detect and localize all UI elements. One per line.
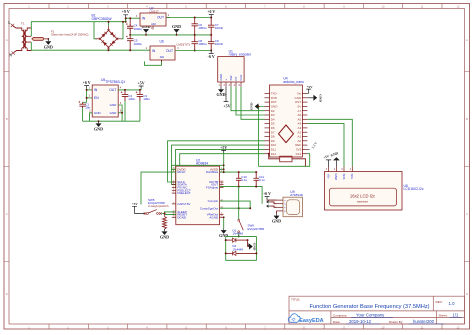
- svg-text:SDA: SDA: [342, 174, 346, 180]
- svg-text:1N4448: 1N4448: [233, 247, 244, 251]
- ground at LCD: [335, 160, 337, 166]
- svg-text:1.0: 1.0: [449, 301, 456, 306]
- svg-text:15: 15: [220, 213, 222, 215]
- wire +6V rail: [166, 17, 211, 19]
- svg-text:D: D: [6, 292, 8, 296]
- LCD module U8: [325, 172, 403, 211]
- ground at U9: [276, 211, 278, 214]
- svg-text:SCL: SCL: [350, 174, 354, 180]
- svg-text:GND: GND: [94, 126, 103, 131]
- svg-text:DGND: DGND: [177, 215, 187, 219]
- svg-text:LCD16X2-I2c: LCD16X2-I2c: [404, 187, 424, 191]
- svg-text:GND: GND: [219, 233, 228, 238]
- wire avdd dvdd top: [172, 165, 224, 169]
- wire SW6 to diode loop: [238, 233, 240, 237]
- svg-text:LM337(T): LM337(T): [177, 42, 190, 46]
- svg-text:GND: GND: [250, 102, 254, 110]
- resistor R2 pulldown: [163, 217, 167, 230]
- svg-text:REV:: REV:: [436, 300, 443, 304]
- svg-text:arduino_nano: arduino_nano: [283, 80, 304, 84]
- svg-text:AGND: AGND: [209, 215, 219, 219]
- svg-text:5: 5: [173, 186, 174, 188]
- svg-text:MCLK: MCLK: [177, 170, 185, 174]
- wire +5V rail right of U2: [220, 171, 257, 173]
- svg-text:SW: SW: [229, 75, 233, 80]
- svg-text:TPS7B63-Q1: TPS7B63-Q1: [105, 80, 125, 84]
- svg-text:EN: EN: [94, 96, 99, 100]
- capacitor C9 100nF: [208, 35, 214, 51]
- svg-text:D12: D12: [271, 152, 277, 156]
- svg-text:100u: 100u: [128, 97, 135, 101]
- power flag +6V at U9: [265, 197, 270, 200]
- svg-text:2-way(s)switch: 2-way(s)switch: [148, 204, 169, 208]
- ground symbol U5: [98, 121, 100, 123]
- wire D13 loop: [259, 154, 310, 167]
- svg-text:ADJ: ADJ: [160, 56, 165, 59]
- wire fsadjust rail: [220, 187, 263, 204]
- svg-text:Z748S4D: Z748S4D: [290, 193, 304, 197]
- wire A5 to LCD SCL: [307, 119, 352, 166]
- svg-text:GBPC3502W: GBPC3502W: [92, 17, 113, 21]
- ground flag arduino left GND pin: [259, 105, 265, 107]
- regulator U7 LM317: [140, 13, 166, 26]
- svg-text:B: B: [6, 117, 8, 121]
- svg-text:IN: IN: [94, 88, 98, 92]
- svg-text:+5v: +5v: [326, 174, 330, 179]
- capacitor C5 1000u: [127, 35, 133, 45]
- svg-text:CLK: CLK: [239, 75, 243, 81]
- svg-text:+6 V: +6 V: [263, 192, 271, 196]
- ground below fuse: [47, 38, 49, 40]
- power flag +5V encoder: [224, 87, 229, 102]
- svg-text:waveshare: waveshare: [357, 201, 369, 204]
- gnd mid rail: [130, 34, 211, 36]
- transformer T1: [13, 26, 31, 53]
- bridge pin stubs: [108, 26, 110, 30]
- arduino logo diamond: [279, 125, 294, 143]
- capacitor C10 0.1u: [236, 172, 241, 187]
- capacitor C7 100nF: [208, 18, 214, 35]
- svg-text:100nF: 100nF: [215, 42, 224, 46]
- svg-text:A: A: [6, 38, 8, 42]
- regulator U5 TPS7B63-Q1: [92, 85, 118, 117]
- svg-text:IN: IN: [142, 16, 146, 20]
- wire D12 to PSELECT: [176, 154, 265, 191]
- ground symbol encoder: [220, 87, 222, 89]
- svg-text:Company:: Company:: [333, 313, 347, 317]
- net flag 3.3V: [307, 148, 309, 150]
- switch SW6: [238, 219, 240, 221]
- svg-text:FSAdjust: FSAdjust: [206, 186, 218, 190]
- ground below SW5 resistor: [164, 229, 166, 231]
- svg-text:GND: GND: [44, 44, 53, 49]
- svg-text:U6: U6: [160, 40, 164, 44]
- svg-text:C: C: [6, 212, 8, 216]
- svg-text:LM317: LM317: [150, 10, 160, 14]
- svg-text:Drawn By:: Drawn By:: [389, 320, 403, 324]
- wire encoder SW to D2: [231, 87, 265, 111]
- svg-text:A: A: [466, 38, 468, 42]
- capacitor C1 10u: [79, 102, 85, 108]
- wire U6 adj loop: [145, 60, 162, 65]
- wire compin: [220, 201, 251, 208]
- power flag +6V: [209, 15, 214, 18]
- svg-text:0.1u: 0.1u: [241, 178, 247, 182]
- svg-text:GND: GND: [160, 234, 169, 239]
- svg-text:10: 10: [172, 216, 174, 218]
- capacitor C4 1000u: [129, 18, 131, 25]
- svg-text:OUT: OUT: [109, 88, 116, 92]
- svg-text:20: 20: [220, 216, 222, 218]
- wire D9 to SCLK: [168, 141, 265, 182]
- svg-text:+5V: +5V: [138, 82, 145, 86]
- wire D11 to FSYNC: [176, 149, 265, 187]
- svg-text:D: D: [466, 292, 468, 296]
- svg-text:1000u: 1000u: [198, 42, 207, 46]
- wire +9V rail to LM317: [126, 17, 140, 19]
- diode loop wires: [226, 235, 257, 237]
- svg-text:Sheet:: Sheet:: [439, 313, 448, 317]
- wire D10 to SDATA: [172, 145, 265, 185]
- svg-text:+9 V: +9 V: [122, 10, 130, 14]
- svg-text:EasyEDA: EasyEDA: [299, 318, 323, 324]
- svg-text:GND: GND: [110, 103, 118, 107]
- net flag arrows to U9: [267, 201, 271, 203]
- wire A4 to LCD SDA: [307, 124, 344, 167]
- svg-text:4: 4: [173, 189, 174, 191]
- title block: [289, 296, 465, 324]
- capacitor C3 100u: [137, 90, 143, 101]
- wire transformer to rails: [31, 22, 125, 37]
- svg-text:CompIn: CompIn: [208, 199, 219, 203]
- svg-text:0.1u: 0.1u: [259, 178, 265, 182]
- svg-text:GND: GND: [334, 174, 338, 182]
- svg-text:GND: GND: [253, 243, 257, 251]
- EasyEDA logo: [288, 314, 300, 323]
- svg-text:9: 9: [173, 202, 174, 204]
- wire +5V output rail: [118, 89, 141, 91]
- svg-text:IN: IN: [152, 49, 156, 53]
- svg-text:-6 V: -6 V: [208, 54, 215, 59]
- fuse F1: [33, 37, 44, 40]
- power flag +5V at LCD: [326, 160, 331, 167]
- power flag +5V: [139, 86, 144, 89]
- power flag +5V arduino: [306, 89, 311, 93]
- svg-text:GND: GND: [172, 24, 181, 29]
- svg-text:18: 18: [220, 183, 222, 185]
- capacitor C2 100u: [122, 90, 128, 101]
- svg-text:Date:: Date:: [333, 320, 341, 324]
- svg-text:100u: 100u: [143, 97, 150, 101]
- svg-text:GND: GND: [94, 111, 102, 115]
- wire to SW6: [238, 187, 240, 220]
- power flag -6V: [209, 51, 214, 54]
- svg-text:16x2 LCD i2c: 16x2 LCD i2c: [350, 194, 375, 199]
- svg-text:3: 3: [173, 192, 174, 194]
- svg-text:TITLE:: TITLE:: [291, 297, 300, 301]
- svg-text:GND: GND: [272, 219, 281, 224]
- svg-text:FSELECT: FSELECT: [177, 191, 191, 195]
- svg-text:GND: GND: [216, 92, 225, 97]
- wire encoder CLK to D4: [241, 87, 265, 120]
- svg-text:100nF: 100nF: [215, 26, 224, 30]
- ground symbol mid rail left: [143, 29, 149, 33]
- svg-text:+5V: +5V: [132, 202, 138, 206]
- wire -6V rail: [175, 50, 211, 52]
- svg-text:+: +: [224, 79, 228, 81]
- svg-text:CompSgnOut: CompSgnOut: [200, 206, 218, 210]
- svg-text:Your Company: Your Company: [356, 313, 385, 318]
- svg-text:B: B: [466, 117, 468, 121]
- regulator U6 LM337: [150, 46, 175, 60]
- wire compsgnout: [220, 207, 251, 209]
- terminal N: [12, 51, 15, 54]
- wire SW5 to RESET: [161, 213, 176, 216]
- svg-text:C: C: [466, 212, 468, 216]
- svg-text:T1: T1: [21, 22, 25, 26]
- svg-text:2019-10-12: 2019-10-12: [349, 319, 372, 324]
- power flag +5V at U2: [221, 150, 226, 153]
- ground symbol mid rail right: [174, 29, 180, 33]
- svg-text:Function Generator Base Freque: Function Generator Base Frequency (37.5M…: [309, 304, 429, 310]
- wire MCLK left: [141, 172, 176, 204]
- ground flag sideways diode loop: [248, 240, 250, 246]
- svg-text:N: N: [9, 54, 12, 58]
- svg-text:CAP/2.5V: CAP/2.5V: [177, 202, 190, 206]
- svg-text:1N4448: 1N4448: [233, 232, 244, 236]
- svg-text:DACBias: DACBias: [206, 170, 219, 174]
- svg-text:GND: GND: [110, 111, 118, 115]
- power flag +9V: [123, 15, 128, 18]
- svg-text:+5V: +5V: [223, 103, 230, 108]
- svg-text:1000u: 1000u: [198, 26, 207, 30]
- svg-text:+6 V: +6 V: [207, 10, 215, 14]
- capacitor C8 1000u: [192, 35, 198, 51]
- svg-text:6: 6: [173, 183, 174, 185]
- svg-text:GND: GND: [319, 94, 323, 102]
- gnd rail below U5: [83, 120, 140, 122]
- capacitor C6 1000u: [194, 18, 196, 25]
- power flag +6V at U5: [84, 86, 89, 89]
- svg-text:EVQ22705R: EVQ22705R: [248, 227, 266, 231]
- svg-text:D13: D13: [296, 152, 302, 156]
- svg-text:OUT: OUT: [157, 15, 164, 19]
- svg-text:+6 V: +6 V: [83, 81, 91, 85]
- svg-text:1/1: 1/1: [453, 313, 459, 318]
- wire resistor to D13 net: [292, 159, 305, 167]
- ground flag arduino right: [307, 97, 313, 99]
- wire arduino gnd down to dds area: [258, 106, 260, 166]
- svg-text:OUT: OUT: [166, 49, 173, 53]
- svg-text:ADJ: ADJ: [151, 23, 156, 26]
- svg-text:+5V: +5V: [306, 85, 313, 89]
- wire U5 gnd pins: [90, 113, 93, 121]
- wire D12 to resistor: [269, 154, 280, 159]
- power flag +5V at SW5: [132, 206, 144, 213]
- svg-text:+5V: +5V: [220, 146, 227, 150]
- svg-text:GND: GND: [219, 73, 223, 81]
- ground at U2 AGND: [223, 217, 225, 228]
- svg-text:Glass tube fuse(2A 3F 250VAC): Glass tube fuse(2A 3F 250VAC): [51, 32, 88, 36]
- wire +6V to U5 IN and EN and C1: [86, 88, 88, 102]
- svg-text:1000u: 1000u: [134, 42, 143, 46]
- svg-text:DT: DT: [234, 76, 238, 80]
- wire encoder DT to D3: [236, 87, 265, 115]
- svg-text:rotary_encoder: rotary_encoder: [229, 53, 252, 57]
- capacitor C11 0.1u: [254, 172, 259, 187]
- svg-text:hunster200: hunster200: [413, 319, 435, 324]
- terminal L: [11, 24, 14, 27]
- resistor R1: [280, 156, 292, 162]
